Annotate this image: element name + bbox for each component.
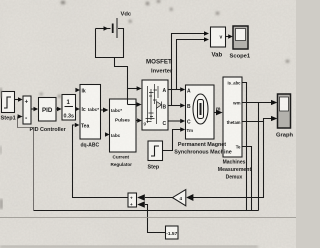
constant block -1.57 — [166, 226, 179, 239]
gain triangle — [173, 190, 186, 206]
block Step1 — [2, 92, 15, 113]
wire inverter C to PMSM C — [168, 119, 185, 124]
sum block Sum1 — [23, 96, 31, 124]
wire demux thetam to Graph input 2 — [242, 116, 277, 122]
wire Step1 to Sum1 — [15, 97, 23, 102]
MOSFET bridge symbols inside inverter — [146, 84, 162, 124]
wire Step to PMSM Tm — [163, 127, 186, 150]
block Current Regulator — [110, 99, 137, 152]
wire demux Te down right side — [242, 147, 252, 211]
block Vab voltage measurement — [211, 27, 226, 47]
block Step (load torque) — [148, 141, 163, 161]
wire PMSM m output to demux — [214, 110, 223, 116]
block dq-ABC — [80, 85, 101, 140]
wire Current Regulator Pulses to inverter g — [136, 118, 142, 123]
wire transfer function to dq-ABC Ic input — [75, 107, 80, 112]
wire wm junction down to feedback bus — [258, 103, 260, 211]
wire PID to transfer function — [56, 107, 62, 112]
wire Vab to Scope1 — [226, 34, 233, 39]
wire tap A up to Vab minus — [177, 37, 210, 89]
transfer function block 1/0.3s — [62, 95, 76, 121]
stub arrow into dq-ABC Ik input — [75, 88, 80, 92]
wire Sum2 output to dq-ABC Tea — [73, 125, 129, 198]
wire Vdc loop — [96, 26, 124, 57]
wire constant -1.57 to Sum2 input 2 — [137, 201, 165, 232]
feedback bus wm to Sum1 minus — [18, 114, 259, 210]
wire demux wm to Graph input 1 — [242, 100, 277, 105]
block Graph scope — [278, 94, 291, 128]
DC voltage source battery symbol — [113, 18, 117, 38]
wire inverter A to PMSM A — [168, 87, 185, 92]
block Scope1 — [233, 26, 248, 49]
block PID Controller — [39, 98, 57, 122]
sum block Sum2 — [128, 193, 137, 207]
arrow into dq-ABC Tea input — [75, 123, 80, 127]
block PMSM — [186, 85, 215, 139]
wire demux is_abc down right side — [242, 83, 247, 211]
block Machines Measurement Demux — [223, 77, 242, 157]
wire Vdc to inverter DC inputs — [115, 58, 142, 107]
wire inverter B to PMSM B — [168, 103, 185, 108]
wire dq-ABC Iabc* output to Current Regulator — [101, 108, 109, 113]
PMSM motor symbol — [193, 94, 208, 124]
stub arrow into Current Regulator Iabc input — [105, 132, 110, 136]
wire thetam down to gain input — [186, 122, 263, 202]
wire gain output to Sum2 input 1 — [137, 194, 172, 201]
wire tap B up to Vab plus — [172, 31, 210, 105]
block MOSFET Inverter — [142, 80, 168, 130]
wire Sum1 to PID — [31, 107, 38, 112]
